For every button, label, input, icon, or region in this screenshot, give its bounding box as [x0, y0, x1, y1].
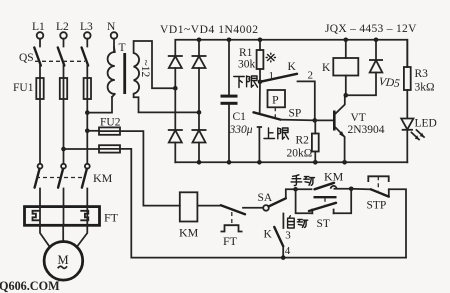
- node mid rail at right bridge column: [197, 160, 202, 165]
- resistor R2: [287, 120, 319, 162]
- wire SP to base node: [281, 119, 315, 122]
- svg-text:4: 4: [285, 245, 291, 257]
- resistor R1: [238, 40, 263, 82]
- node bridge left mid: [173, 86, 178, 91]
- QS linkage dashed: [35, 60, 85, 62]
- terminal L2: [56, 21, 69, 47]
- LED: [401, 118, 437, 163]
- SP switch blade: [254, 112, 281, 119]
- svg-text:KM: KM: [93, 171, 113, 185]
- transistor VT 2N3904: [315, 95, 385, 162]
- svg-text:P: P: [272, 93, 279, 107]
- wire FT contact to SA: [243, 207, 263, 209]
- node mid rail at C1: [227, 160, 232, 165]
- wire FU1 to KM contacts: [40, 99, 87, 163]
- FT NC contact blade: [221, 205, 245, 214]
- KM linkage dashed: [36, 177, 84, 179]
- svg-text:20kΩ: 20kΩ: [287, 148, 313, 160]
- capacitor C1: [221, 40, 253, 163]
- wire secondary top to bridge: [134, 41, 176, 88]
- svg-text:VD1~VD4 1N4002: VD1~VD4 1N4002: [160, 24, 259, 36]
- reference mark ※: [266, 53, 275, 62]
- node L3 to FU2a: [85, 129, 90, 134]
- node 1 drop wire: [259, 82, 261, 113]
- relay contact K (3-4): [264, 227, 292, 258]
- svg-text:L2: L2: [56, 21, 69, 33]
- relay K coil: [322, 40, 358, 95]
- svg-text:FT: FT: [223, 234, 238, 248]
- svg-text:T: T: [119, 42, 126, 54]
- switch QS: [19, 48, 88, 66]
- contact 2 wire: [298, 81, 315, 120]
- svg-text:30k: 30k: [238, 59, 256, 71]
- node collector / relay K coil: [344, 93, 349, 98]
- svg-text:ST: ST: [317, 218, 330, 230]
- terminal N: [107, 21, 117, 52]
- svg-text:SP: SP: [289, 108, 302, 120]
- svg-text:K: K: [288, 61, 297, 73]
- svg-text:R2: R2: [296, 135, 310, 147]
- svg-text:K: K: [322, 62, 331, 74]
- diode VD1 (bridge top-left): [168, 56, 183, 88]
- svg-text:KM: KM: [324, 170, 344, 184]
- wire node B to STP: [351, 188, 371, 191]
- svg-text:R3: R3: [415, 68, 429, 80]
- contactor KM main contacts: [35, 164, 113, 207]
- wire secondary bottom to bridge: [134, 94, 199, 113]
- node top rail at right bridge column: [197, 38, 202, 43]
- svg-text:VT: VT: [351, 112, 366, 124]
- svg-text:FT: FT: [104, 211, 119, 225]
- ST branch loop: [296, 189, 313, 213]
- node K4 on bottom rail: [281, 255, 286, 260]
- node top rail at R1: [258, 38, 263, 43]
- svg-text:VD5: VD5: [378, 76, 400, 90]
- switch K (level selector) blade: [260, 74, 297, 82]
- node B: [349, 187, 354, 192]
- svg-text:L3: L3: [80, 21, 93, 33]
- mid rail (DC minus): [175, 161, 407, 163]
- KM auxiliary contact: [296, 170, 352, 190]
- diode VD4 (bridge bottom-right): [192, 112, 207, 162]
- svg-text:KM: KM: [179, 226, 199, 240]
- terminal L1: [32, 21, 45, 47]
- wire FU2a to KM coil: [120, 131, 180, 206]
- svg-text:STP: STP: [367, 200, 387, 212]
- svg-text:Q606.COM: Q606.COM: [0, 279, 60, 293]
- wire KM coil to FT contact: [197, 205, 221, 207]
- wires FT to motor: [40, 225, 50, 247]
- svg-text:C1: C1: [233, 111, 247, 123]
- svg-text:QS: QS: [19, 52, 34, 64]
- probe box P (sensor SP): [268, 90, 286, 117]
- motor M: [44, 241, 83, 280]
- svg-text:3: 3: [285, 230, 291, 242]
- FT contact actuator: [221, 212, 243, 248]
- svg-text:M: M: [58, 253, 69, 267]
- SP lower fixed contact stub: [258, 127, 262, 162]
- selector SA: [258, 189, 296, 210]
- label 下限: [234, 76, 258, 88]
- thermal relay FT heater box: [25, 207, 119, 226]
- svg-text:N: N: [107, 21, 116, 33]
- node top rail at C1: [227, 38, 232, 43]
- fuse FU2b: [64, 145, 121, 152]
- node mid rail at R2: [313, 160, 318, 165]
- label 手动: [291, 175, 314, 186]
- node 1 (K selector common): [258, 80, 263, 85]
- fuse FU1: [13, 78, 91, 99]
- node A: [293, 187, 298, 192]
- svg-text:JQX – 4453 – 12V: JQX – 4453 – 12V: [325, 23, 417, 35]
- relay coil KM (control): [179, 192, 199, 239]
- diode VD5: [346, 40, 401, 95]
- node mid rail at VT emitter: [342, 160, 347, 165]
- wire QS to FU1: [40, 66, 87, 79]
- top rail +12V: [175, 40, 407, 67]
- svg-text:SA: SA: [258, 192, 273, 204]
- node L3 to transformer primary: [85, 110, 90, 115]
- terminal L3: [80, 21, 93, 47]
- label 上限: [264, 128, 288, 139]
- node top rail at relay K: [344, 38, 349, 43]
- transformer T: [108, 42, 151, 97]
- node VT base / R2 top: [313, 118, 318, 123]
- diode VD2 (bridge top-right): [192, 40, 207, 113]
- button ST: [309, 197, 337, 230]
- resistor R3: [404, 40, 435, 118]
- svg-text:K: K: [264, 229, 273, 241]
- label 自动: [288, 216, 308, 228]
- svg-text:LED: LED: [415, 118, 437, 130]
- fuse FU2a: [87, 117, 120, 135]
- wire L3 node to primary bottom: [87, 97, 112, 113]
- svg-text:330μ: 330μ: [229, 124, 253, 136]
- svg-text:2N3904: 2N3904: [348, 124, 385, 136]
- svg-text:FU1: FU1: [13, 82, 34, 94]
- node bridge right mid: [197, 110, 202, 115]
- SA auto fixed contact stub: [282, 214, 284, 229]
- svg-text:3kΩ: 3kΩ: [415, 82, 435, 94]
- svg-text:~12: ~12: [139, 60, 151, 78]
- node L2 to FU2b: [61, 147, 66, 152]
- svg-text:R1: R1: [239, 47, 253, 59]
- svg-text:2: 2: [308, 70, 314, 82]
- button STP (NC stop): [367, 176, 407, 257]
- diode VD3 (bridge bottom-left): [168, 88, 183, 162]
- node mid rail at SP lower stub: [257, 160, 262, 165]
- svg-text:L1: L1: [32, 21, 45, 33]
- node top rail at VD5: [374, 38, 379, 43]
- wire FU2b to bottom rail: [120, 149, 406, 258]
- svg-text:1: 1: [269, 70, 275, 82]
